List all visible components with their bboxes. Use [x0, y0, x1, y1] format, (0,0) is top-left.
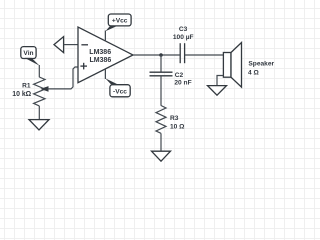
wire C3 to speaker: [185, 54, 224, 56]
resistor R3: [156, 106, 166, 134]
svg-text:4 Ω: 4 Ω: [248, 69, 259, 76]
wire speaker to ground: [217, 76, 223, 86]
ground (R3): [152, 151, 171, 161]
svg-text:10 Ω: 10 Ω: [170, 123, 185, 130]
label Speaker 4 Ω: [248, 61, 274, 77]
capacitor C2: [150, 72, 173, 76]
svg-text:R1: R1: [22, 83, 31, 90]
power +Vcc callout: [105, 14, 131, 42]
wire C2 to R3: [160, 76, 162, 106]
svg-text:-Vcc: -Vcc: [113, 88, 127, 95]
wire node to C2: [160, 55, 162, 72]
open input arrow: [54, 37, 64, 53]
svg-text:R3: R3: [170, 115, 179, 122]
wire R1 to ground: [38, 106, 40, 120]
label C3 100 µF: [173, 26, 194, 41]
wire Vin to R1: [38, 65, 40, 77]
ground (speaker): [208, 86, 227, 96]
wire R3 to ground: [160, 133, 162, 151]
label C2 20 nF: [174, 72, 191, 86]
wire op-amp output to C3: [133, 54, 180, 56]
svg-text:C3: C3: [179, 26, 188, 33]
svg-text:100 µF: 100 µF: [173, 34, 194, 41]
label LM386 (shape text, two lines): [89, 49, 111, 64]
svg-text:20 nF: 20 nF: [174, 79, 191, 86]
svg-text:10 kΩ: 10 kΩ: [12, 91, 31, 98]
node junction: [159, 53, 163, 57]
op-amp U1 LM386: [78, 27, 133, 83]
label R1 10 kΩ: [12, 83, 31, 98]
wire wiper to op-amp + input: [48, 67, 79, 89]
power -Vcc callout: [105, 69, 130, 97]
potentiometer R1: [34, 77, 49, 106]
svg-text:Vin: Vin: [23, 50, 33, 57]
svg-text:C2: C2: [175, 72, 184, 79]
ground (R1): [29, 120, 49, 130]
callout label Vin: [21, 47, 40, 66]
svg-text:+Vcc: +Vcc: [112, 18, 128, 25]
svg-text:Speaker: Speaker: [248, 61, 274, 68]
speaker LS1: [223, 43, 241, 88]
label R3 10 Ω: [170, 115, 185, 130]
svg-text:LM386: LM386: [90, 57, 112, 64]
svg-text:LM386: LM386: [89, 49, 111, 56]
wire arrow to op-amp inverting input: [64, 44, 78, 46]
capacitor C3: [180, 43, 184, 63]
